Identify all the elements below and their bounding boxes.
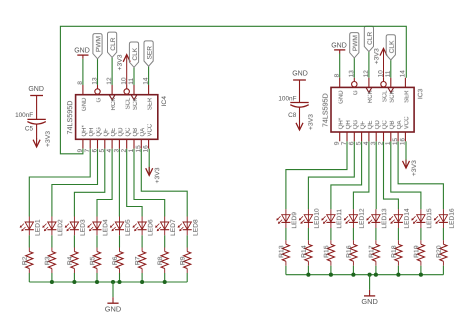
svg-text:R3: R3 (44, 256, 51, 265)
ground C8 (292, 71, 308, 80)
svg-text:RCK: RCK (111, 98, 117, 111)
svg-text:+3V3: +3V3 (117, 54, 124, 70)
wire resistor R8 to ground bus (164, 273, 166, 282)
wire IC4 pin to LED6 (127, 149, 142, 217)
wire C5 top (36, 96, 38, 120)
svg-text:SCL: SCL (382, 90, 388, 102)
svg-text:LED6: LED6 (147, 219, 154, 236)
svg-text:LED16: LED16 (449, 208, 456, 228)
wire SER to IC4 pin 14 (148, 66, 150, 85)
svg-text:LED10: LED10 (314, 208, 321, 228)
wire LED5 to resistor (119, 235, 121, 247)
svg-text:74LS595D: 74LS595D (65, 101, 74, 135)
LED LED5 (110, 217, 132, 236)
svg-text:VCC: VCC (148, 123, 154, 136)
wire IC4 pin to LED1 (29, 149, 90, 217)
svg-text:16: 16 (143, 145, 150, 153)
wire IC4 pin to LED2 (52, 149, 98, 217)
resistor R18 (391, 240, 402, 266)
svg-text:GND: GND (339, 90, 345, 104)
svg-text:QH*: QH* (339, 117, 345, 129)
junction (140, 280, 144, 284)
resistor R19 (413, 240, 424, 266)
junction (72, 280, 76, 284)
junction (351, 273, 355, 277)
svg-text:VCC: VCC (404, 116, 410, 129)
wire LED16 to resistor (442, 228, 444, 240)
resistor R7 (135, 248, 146, 274)
svg-text:LED4: LED4 (102, 219, 109, 236)
svg-text:QH*: QH* (82, 125, 88, 137)
svg-text:GND: GND (74, 48, 90, 55)
svg-text:LED2: LED2 (57, 219, 64, 236)
wire IC3 pin to LED10 (308, 141, 354, 209)
svg-text:+3V3: +3V3 (308, 114, 315, 130)
svg-text:QD: QD (118, 127, 124, 137)
svg-text:6: 6 (92, 149, 99, 153)
wire LED8 to resistor (186, 235, 188, 247)
svg-text:R4: R4 (67, 256, 74, 265)
resistor R8 (157, 248, 168, 274)
svg-text:CLK: CLK (389, 40, 396, 53)
wire IC4 pin to LED7 (134, 149, 165, 217)
wire GND to IC3 pin 8 (339, 54, 341, 78)
resistor R2 (22, 248, 33, 274)
wire resistor R13 to ground bus (285, 266, 287, 275)
svg-text:SCK: SCK (133, 98, 139, 110)
wire IC4 pin to LED5 (118, 149, 120, 217)
svg-text:QH: QH (346, 120, 352, 129)
svg-text:2: 2 (121, 149, 128, 153)
wire resistor R17 to ground bus (375, 266, 377, 275)
svg-text:QH: QH (89, 128, 95, 137)
ground flag IC4 pin 8 (74, 48, 90, 59)
junction (396, 273, 400, 277)
svg-text:LED3: LED3 (80, 219, 87, 236)
LED LED11 (321, 209, 343, 229)
net flag PWM (93, 34, 103, 59)
wire IC3 pin to LED14 (384, 141, 399, 209)
LED LED13 (366, 208, 388, 228)
wire resistor R20 to ground bus (442, 266, 444, 275)
svg-text:G: G (353, 90, 359, 95)
wire GND to IC4 pin 8 (82, 59, 84, 85)
svg-text:CLR: CLR (367, 31, 374, 44)
wire CLR to IC4 pin 12 (111, 57, 113, 85)
svg-text:PWM: PWM (352, 35, 359, 51)
resistor R3 (44, 248, 55, 274)
svg-text:R13: R13 (278, 245, 285, 258)
svg-text:1: 1 (128, 149, 135, 153)
wire IC4 pin to LED4 (97, 149, 112, 217)
wire bus to ground (369, 275, 371, 296)
svg-text:QG: QG (96, 127, 102, 137)
svg-text:R15: R15 (323, 245, 330, 258)
wire LED4 to resistor (96, 235, 98, 247)
wire IC3 pin to LED13 (375, 141, 377, 209)
svg-text:4: 4 (363, 141, 370, 145)
wire resistor R19 to ground bus (420, 266, 422, 275)
wire PWM to IC3 pin 13 (353, 58, 355, 78)
svg-text:C5: C5 (25, 125, 34, 132)
svg-text:LED7: LED7 (170, 219, 177, 236)
svg-text:QA: QA (140, 128, 146, 137)
svg-text:QE: QE (368, 121, 374, 130)
net flag CLK (129, 42, 139, 67)
wire LED6 to resistor (141, 235, 143, 247)
svg-text:QG: QG (353, 120, 359, 130)
junction (163, 280, 167, 284)
svg-text:GND: GND (292, 71, 308, 78)
resistor R5 (89, 248, 100, 274)
wire LED13 to resistor (375, 228, 377, 240)
svg-text:LED1: LED1 (35, 219, 42, 236)
LED LED1 (20, 217, 42, 236)
LED LED12 (344, 208, 366, 228)
wire IC3 pin to LED9 (286, 141, 347, 209)
svg-text:R9: R9 (180, 256, 187, 265)
svg-text:QB: QB (390, 121, 396, 130)
wire LED10 to resistor (307, 228, 309, 240)
LED LED10 (299, 208, 321, 228)
svg-text:R6: R6 (112, 256, 119, 265)
net flag CLK IC3 (386, 35, 396, 60)
wire IC4 pin to LED3 (74, 149, 104, 217)
wire LED12 to resistor (352, 228, 354, 240)
wire cascade IC4 QH* to IC3 SER (60, 26, 406, 154)
svg-text:15: 15 (392, 138, 399, 146)
wire resistor R9 to ground bus (186, 273, 188, 282)
svg-text:GND: GND (28, 86, 44, 93)
svg-text:3: 3 (370, 141, 377, 145)
svg-text:14: 14 (399, 70, 406, 78)
resistor R20 (436, 240, 447, 266)
svg-text:5: 5 (99, 149, 106, 153)
wire resistor R4 to ground bus (73, 273, 75, 282)
svg-text:4: 4 (106, 149, 113, 153)
svg-text:LED5: LED5 (125, 219, 132, 236)
junction (419, 273, 423, 277)
resistor R13 (278, 240, 289, 266)
svg-text:5: 5 (356, 141, 363, 145)
svg-text:+3V3: +3V3 (374, 48, 381, 64)
svg-text:G: G (96, 97, 102, 102)
wire C8 top (299, 80, 301, 103)
svg-text:R5: R5 (89, 256, 96, 265)
wire resistor R14 to ground bus (307, 266, 309, 275)
svg-text:74LS595D: 74LS595D (321, 93, 330, 127)
wire CLR to IC3 pin 12 (368, 52, 370, 78)
wire IC3 pin to LED12 (353, 141, 369, 209)
resistor R17 (368, 240, 379, 266)
svg-text:R20: R20 (436, 245, 443, 258)
shift register IC4 74LS595D (65, 77, 168, 152)
junction (306, 273, 310, 277)
LED LED14 (389, 208, 411, 228)
supply +3V3 C8 (296, 108, 315, 131)
capacitor C5 (15, 112, 46, 132)
junction (368, 273, 372, 277)
LED LED15 (411, 208, 433, 228)
svg-text:CLR: CLR (110, 37, 117, 50)
LED LED4 (87, 217, 109, 236)
resistor R6 (112, 248, 123, 274)
wire LED9 to resistor (285, 228, 287, 240)
wire LED2 to resistor (51, 235, 53, 247)
svg-text:LED15: LED15 (426, 208, 433, 228)
net flag CLR IC3 (364, 26, 374, 51)
wire LED11 to resistor (330, 228, 332, 240)
wire resistor R6 to ground bus (119, 273, 121, 282)
wire resistor R7 to ground bus (141, 273, 143, 282)
svg-text:LED8: LED8 (193, 219, 200, 236)
svg-text:QF: QF (361, 121, 367, 130)
ground C5 (28, 86, 44, 95)
LED LED9 (276, 209, 298, 228)
wire IC3 pin to LED16 (398, 141, 443, 209)
svg-text:IC4: IC4 (161, 96, 168, 107)
wire resistor R5 to ground bus (96, 273, 98, 282)
supply +3V3 IC3 pin 10 (374, 48, 388, 78)
net flag SER (144, 41, 154, 66)
svg-text:GND: GND (361, 297, 377, 306)
wire LED14 to resistor (397, 228, 399, 240)
wire LED1 to resistor (28, 235, 30, 247)
resistor R14 (301, 240, 312, 266)
wire IC3 pin to LED15 (391, 141, 421, 209)
svg-text:100nF: 100nF (278, 96, 296, 103)
ground (105, 303, 121, 313)
svg-text:SCL: SCL (126, 97, 132, 109)
svg-text:+3V3: +3V3 (45, 131, 52, 147)
svg-text:IC3: IC3 (417, 88, 424, 99)
svg-text:+3V3: +3V3 (154, 167, 161, 183)
svg-text:LED9: LED9 (291, 212, 298, 229)
svg-text:QF: QF (104, 128, 110, 137)
wire LED3 to resistor (73, 235, 75, 247)
svg-text:7: 7 (341, 141, 348, 145)
wire ground bus IC4 side (29, 281, 187, 283)
wire IC3 pin to LED11 (331, 141, 362, 209)
junction (95, 280, 99, 284)
svg-text:LED12: LED12 (359, 208, 366, 228)
LED LED8 (178, 217, 200, 236)
LED LED3 (65, 217, 87, 236)
svg-text:PWM: PWM (95, 36, 102, 52)
svg-text:R18: R18 (391, 245, 398, 258)
wire resistor R3 to ground bus (51, 273, 53, 282)
svg-text:16: 16 (399, 138, 406, 146)
svg-text:QE: QE (111, 128, 117, 137)
wire LED15 to resistor (420, 228, 422, 240)
resistor R4 (67, 248, 78, 274)
svg-text:RCK: RCK (368, 90, 374, 103)
svg-text:GND: GND (105, 305, 121, 314)
svg-text:R14: R14 (301, 245, 308, 258)
svg-text:100nF: 100nF (15, 112, 33, 119)
svg-text:QC: QC (382, 120, 388, 130)
svg-text:R16: R16 (346, 245, 353, 258)
junction (50, 280, 54, 284)
svg-text:QC: QC (126, 127, 132, 137)
wire resistor R16 to ground bus (352, 266, 354, 275)
svg-text:QA: QA (397, 121, 403, 130)
wire resistor R2 to ground bus (28, 273, 30, 282)
svg-text:7: 7 (84, 149, 91, 153)
ground flag IC3 pin 8 (331, 42, 347, 53)
junction (111, 280, 115, 284)
wire IC4 pin to LED8 (141, 149, 187, 217)
wire resistor R15 to ground bus (330, 266, 332, 275)
resistor R15 (323, 240, 334, 266)
supply +3V3 C5 (33, 124, 52, 147)
svg-text:SER: SER (404, 90, 410, 103)
svg-text:LED14: LED14 (404, 208, 411, 228)
wire LED7 to resistor (164, 235, 166, 247)
svg-text:R7: R7 (135, 256, 142, 265)
resistor R9 (180, 248, 191, 274)
svg-text:R8: R8 (157, 256, 164, 265)
svg-text:CLK: CLK (132, 47, 139, 60)
svg-text:QB: QB (133, 128, 139, 137)
supply +3V3 IC4 VCC (146, 149, 162, 184)
junction (374, 273, 378, 277)
svg-text:LED13: LED13 (381, 208, 388, 228)
svg-text:GND: GND (82, 97, 88, 111)
svg-text:LED11: LED11 (336, 209, 343, 229)
svg-text:C8: C8 (288, 112, 297, 119)
svg-text:R2: R2 (22, 256, 29, 265)
capacitor C8 (278, 96, 308, 120)
svg-text:SCK: SCK (390, 90, 396, 102)
svg-text:6: 6 (348, 141, 355, 145)
supply +3V3 IC4 pin 10 (117, 54, 131, 85)
svg-text:1: 1 (385, 141, 392, 145)
shift register IC3 74LS595D (321, 70, 425, 145)
LED LED2 (42, 217, 64, 236)
svg-text:QD: QD (375, 120, 381, 130)
svg-text:SER: SER (147, 46, 154, 60)
svg-text:+3V3: +3V3 (411, 160, 418, 176)
LED LED7 (155, 217, 177, 236)
junction (117, 280, 121, 284)
wire CLK to IC4 pin 11 (133, 67, 135, 85)
supply +3V3 IC3 VCC (403, 141, 419, 176)
svg-text:3: 3 (113, 149, 120, 153)
wire resistor R18 to ground bus (397, 266, 399, 275)
net flag PWM IC3 (350, 33, 360, 58)
junction (329, 273, 333, 277)
wire ground bus IC3 side (286, 274, 444, 276)
svg-text:SER: SER (148, 97, 154, 110)
svg-text:GND: GND (331, 42, 347, 49)
LED LED16 (434, 208, 456, 228)
ground (361, 296, 377, 306)
wire CLK to IC3 pin 11 (390, 60, 392, 78)
svg-text:15: 15 (135, 145, 142, 153)
svg-text:R19: R19 (413, 245, 420, 258)
resistor R16 (346, 240, 357, 266)
wire bus to ground (112, 282, 114, 303)
svg-text:9: 9 (334, 141, 341, 145)
LED LED6 (133, 217, 155, 236)
wire PWM to IC4 pin 13 (97, 59, 99, 85)
svg-text:2: 2 (378, 141, 385, 145)
net flag CLR (108, 32, 118, 57)
svg-text:R17: R17 (368, 245, 375, 258)
